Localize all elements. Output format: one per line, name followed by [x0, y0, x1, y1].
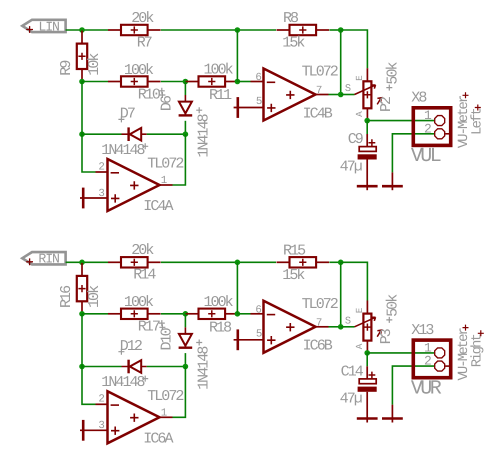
svg-text:R18: R18 [209, 319, 232, 336]
resistor R15 [277, 257, 330, 267]
svg-text:D7: D7 [120, 106, 135, 123]
wire [366, 353, 368, 366]
svg-text:A: A [354, 111, 365, 117]
wire [341, 262, 368, 300]
wire [236, 30, 238, 82]
X13 value label Right [470, 330, 486, 367]
svg-text:50k: 50k [384, 61, 401, 84]
X8 pin 2 label [424, 121, 431, 136]
svg-text:15k: 15k [282, 35, 305, 52]
svg-text:100k: 100k [124, 62, 154, 79]
svg-text:R9: R9 [58, 61, 75, 76]
X8 pin 1 label [424, 108, 432, 123]
X8 name label [411, 90, 427, 107]
R17 value label [124, 294, 154, 311]
svg-text:20k: 20k [131, 242, 154, 259]
wire [161, 261, 276, 263]
potentiometer P3 50k [355, 301, 382, 353]
R7 value label [131, 10, 154, 27]
wire [66, 261, 108, 263]
P3 value label 50k [384, 294, 401, 323]
IC6B value label TL072 [302, 296, 338, 313]
wire [367, 120, 434, 122]
svg-text:C9: C9 [348, 131, 363, 148]
ground at IC6A pin 3 [80, 420, 108, 441]
node feedback tap junction [235, 260, 241, 266]
wire [82, 366, 122, 368]
R9 name label [58, 61, 75, 76]
R8 value label [282, 35, 305, 52]
svg-text:100k: 100k [204, 62, 234, 79]
node output junction [338, 92, 344, 98]
node feedback tap junction [235, 27, 241, 33]
diode D6 (vertical) [179, 95, 193, 116]
svg-text:100k: 100k [204, 294, 234, 311]
svg-text:1N4148: 1N4148 [196, 346, 213, 390]
resistor R18 [186, 309, 239, 319]
node junction [79, 79, 85, 85]
diode D12 (horizontal) [122, 360, 147, 374]
svg-text:R15: R15 [283, 243, 306, 260]
op-amp IC4B [251, 69, 329, 121]
diode D10 (vertical) [179, 327, 193, 348]
svg-text:50k: 50k [384, 294, 401, 317]
svg-text:R17: R17 [138, 319, 160, 336]
IC6A pin 1 label [161, 407, 167, 419]
ground at connector pin 2 [382, 405, 403, 423]
wire [392, 366, 434, 405]
node wiper/output junction [364, 350, 370, 356]
wire [329, 29, 340, 31]
R18 value label [204, 294, 234, 311]
IC4A pin 2 label [98, 161, 104, 173]
svg-text:VUR: VUR [411, 377, 442, 400]
wire [340, 262, 342, 327]
node output-feedback junction [338, 27, 344, 33]
X13 pin 1 label [424, 341, 432, 356]
svg-text:D10: D10 [159, 327, 176, 350]
resistor R17 [108, 309, 161, 319]
D12 value label 1N4148 [101, 374, 148, 391]
svg-text:1N4148: 1N4148 [196, 113, 213, 157]
wire [161, 313, 186, 315]
op-amp IC4A [96, 159, 173, 211]
R7 name label [137, 34, 152, 51]
node junction [79, 364, 85, 370]
R18 name label [209, 319, 232, 336]
node diode/divider junction [183, 79, 189, 85]
wire [340, 30, 342, 95]
R11 value label [204, 62, 234, 79]
R17 name label [138, 319, 165, 336]
resistor R16 [77, 263, 87, 314]
X8 value label VU-Meter [456, 92, 472, 148]
R15 name label [283, 243, 306, 260]
wire [237, 313, 250, 315]
P3 name label [378, 328, 395, 344]
wire [341, 94, 355, 96]
svg-text:R7: R7 [137, 34, 152, 51]
P3 pin S label [345, 315, 351, 327]
wire [82, 314, 96, 405]
connector LIN (input pinhead) [22, 19, 65, 34]
C9 name label [348, 131, 363, 148]
IC4A value label TL072 [147, 156, 183, 173]
wire [366, 134, 368, 146]
X8 value label Left [470, 105, 486, 136]
node diode/divider junction [183, 311, 189, 317]
C9 value label 47u [340, 158, 362, 175]
IC4B pin 5 label [256, 96, 262, 108]
net label VUL [411, 145, 441, 168]
wire [329, 94, 341, 96]
node output junction [338, 324, 344, 330]
IC6B pin 5 label [256, 329, 262, 341]
wire [147, 366, 186, 368]
P2 pin E label [354, 75, 365, 81]
svg-text:10k: 10k [86, 53, 103, 76]
svg-text:C14: C14 [341, 363, 364, 380]
node inverting input junction [235, 79, 241, 85]
potentiometer P2 50k [355, 68, 382, 120]
P2 pin S label [345, 83, 351, 95]
net label VUR [411, 377, 442, 400]
svg-text:TL072: TL072 [302, 296, 338, 313]
X13 value label VU-Meter [456, 325, 472, 381]
R8 name label [283, 10, 299, 27]
IC6A value label TL072 [147, 388, 183, 405]
node junction [79, 311, 85, 317]
node junction [79, 131, 85, 137]
svg-text:S: S [345, 315, 351, 327]
P2 value label 50k [384, 61, 401, 90]
X13 name label [411, 322, 434, 339]
wire [66, 29, 108, 31]
wire [173, 367, 186, 418]
wire [366, 366, 368, 378]
D7 name label [118, 106, 134, 123]
wire [366, 121, 368, 134]
svg-text:IC6B: IC6B [303, 338, 333, 355]
D7 value label 1N4148 [101, 142, 148, 159]
ground below C14 [357, 392, 378, 423]
resistor R8 [277, 25, 330, 35]
R9 value label [86, 53, 103, 76]
R10 name label [138, 86, 165, 103]
svg-text:1N4148: 1N4148 [101, 142, 145, 159]
wire [341, 30, 368, 68]
diode D7 (horizontal) [122, 127, 147, 141]
D10 name label [159, 324, 176, 350]
ground at IC6B pin 5 [234, 329, 264, 350]
svg-text:47µ: 47µ [340, 391, 362, 408]
IC6B pin 7 label [316, 318, 322, 330]
op-amp IC6B [251, 301, 329, 353]
C14 value label 47u [340, 391, 362, 408]
node output-feedback junction [338, 260, 344, 266]
connector RIN (input pinhead) [22, 252, 65, 267]
P3 pin E label [354, 307, 365, 313]
resistor R14 [108, 257, 161, 267]
IC4B pin 6 label [255, 72, 261, 84]
svg-text:100k: 100k [124, 294, 154, 311]
svg-text:X8: X8 [411, 90, 427, 107]
node junction [183, 364, 189, 370]
node junction [183, 131, 189, 137]
connector X13 [413, 340, 451, 378]
IC4B name label [303, 105, 333, 122]
svg-text:R10: R10 [138, 86, 161, 103]
ground at connector pin 2 [382, 172, 403, 190]
X13 pin 2 label [424, 354, 431, 369]
svg-text:7: 7 [316, 318, 322, 330]
svg-text:1N4148: 1N4148 [101, 374, 145, 391]
D12 name label [118, 338, 142, 355]
svg-text:P3: P3 [378, 328, 395, 344]
wire [184, 121, 186, 134]
R15 value label [282, 267, 305, 284]
IC6A name label [143, 430, 173, 447]
resistor R9 [77, 31, 87, 82]
svg-text:X13: X13 [411, 322, 434, 339]
svg-text:TL072: TL072 [147, 156, 183, 173]
wire [147, 133, 186, 135]
op-amp IC6A [96, 391, 173, 443]
svg-text:TL072: TL072 [302, 64, 338, 81]
svg-text:E: E [354, 307, 365, 313]
svg-text:R8: R8 [283, 10, 299, 27]
svg-text:LIN: LIN [38, 19, 59, 34]
IC4A pin 1 label [161, 175, 167, 187]
wire [82, 82, 96, 173]
R16 name label [58, 285, 75, 308]
wire [236, 262, 238, 314]
IC4B pin 7 label [316, 85, 322, 97]
wire [329, 261, 340, 263]
IC4A pin 3 label [98, 188, 104, 200]
svg-text:IC4B: IC4B [303, 105, 333, 122]
wire [329, 326, 341, 328]
wire [184, 82, 186, 96]
wire [341, 326, 355, 328]
node inverting input junction [235, 311, 241, 317]
ground below C9 [357, 160, 378, 191]
R14 value label [131, 242, 154, 259]
IC6B name label [303, 338, 333, 355]
svg-text:A: A [354, 343, 365, 349]
resistor R10 [108, 76, 161, 86]
R10 value label [124, 62, 154, 79]
svg-text:E: E [354, 75, 365, 81]
svg-text:R16: R16 [58, 285, 75, 308]
resistor R11 [186, 76, 239, 86]
R14 name label [133, 267, 156, 284]
svg-text:IC4A: IC4A [143, 198, 173, 215]
svg-text:Left: Left [470, 109, 486, 135]
svg-text:R14: R14 [133, 267, 156, 284]
wire [237, 81, 250, 83]
IC6B pin 6 label [255, 304, 261, 316]
wire [184, 353, 186, 366]
svg-text:TL072: TL072 [147, 388, 183, 405]
svg-text:D6: D6 [159, 95, 176, 111]
svg-text:R11: R11 [209, 87, 232, 104]
wire [161, 29, 276, 31]
resistor R7 [108, 25, 161, 35]
ground at IC4A pin 3 [80, 188, 108, 209]
wire [82, 133, 122, 135]
capacitor C9 47u (electrolytic) [358, 139, 377, 159]
node RIN net junction [79, 260, 85, 266]
svg-text:RIN: RIN [38, 252, 59, 267]
capacitor C14 47u (electrolytic) [358, 372, 377, 392]
IC6A pin 2 label [98, 394, 104, 406]
node wiper/output junction [364, 118, 370, 124]
D10 value label 1N4148 [196, 340, 213, 390]
wire [161, 81, 186, 83]
D6 value label 1N4148 [196, 107, 213, 157]
P2 pin A label [354, 111, 365, 117]
svg-text:5: 5 [256, 329, 262, 341]
D6 name label [159, 92, 176, 111]
C14 name label [341, 363, 364, 380]
R11 name label [209, 87, 232, 104]
svg-text:20k: 20k [131, 10, 154, 27]
wire [184, 314, 186, 328]
ground at IC4B pin 5 [234, 97, 264, 118]
wire [82, 313, 108, 315]
svg-text:15k: 15k [282, 267, 305, 284]
svg-text:S: S [345, 83, 351, 95]
P2 name label [378, 97, 395, 112]
R16 value label [86, 285, 103, 308]
svg-text:D12: D12 [120, 338, 142, 355]
P3 pin A label [354, 343, 365, 349]
svg-text:P2: P2 [378, 97, 395, 112]
svg-text:Right: Right [470, 334, 486, 367]
wire [392, 134, 434, 173]
svg-text:47µ: 47µ [340, 158, 362, 175]
svg-text:VUL: VUL [411, 145, 441, 168]
wire [173, 134, 186, 185]
IC6A pin 3 label [98, 420, 104, 432]
svg-text:IC6A: IC6A [143, 430, 173, 447]
svg-text:7: 7 [316, 85, 322, 97]
IC4B value label TL072 [302, 64, 338, 81]
wire [82, 81, 108, 83]
svg-text:10k: 10k [86, 285, 103, 308]
svg-text:5: 5 [256, 96, 262, 108]
node LIN net junction [79, 27, 85, 33]
IC4A name label [143, 198, 173, 215]
connector X8 [413, 108, 451, 146]
wire [367, 352, 434, 354]
